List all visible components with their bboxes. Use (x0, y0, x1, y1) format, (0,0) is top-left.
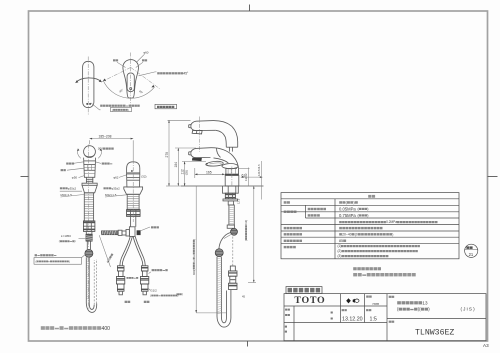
svg-text:±10): ±10) (244, 220, 248, 225)
svg-text:)(: )( (418, 307, 421, 312)
svg-text:): ) (128, 108, 129, 112)
svg-text:(: ( (112, 108, 113, 112)
svg-text:): ) (367, 207, 368, 211)
svg-text:): ) (392, 233, 393, 237)
svg-text:φ62: φ62 (113, 176, 119, 180)
svg-text:45°: 45° (184, 71, 190, 75)
svg-text:13.12.20: 13.12.20 (342, 316, 363, 322)
svg-text:21: 21 (469, 252, 474, 257)
svg-text:(: ( (36, 259, 37, 263)
svg-text:mm: mm (373, 301, 380, 306)
svg-text:φ60: φ60 (143, 50, 149, 54)
svg-text:(2): (2) (338, 249, 342, 253)
svg-text:TLNW36EZ: TLNW36EZ (415, 328, 454, 337)
svg-text:61: 61 (242, 173, 246, 177)
svg-text:0.2MPa: 0.2MPa (386, 220, 397, 224)
svg-text:(: ( (59, 239, 60, 243)
svg-text:TOTO: TOTO (294, 295, 325, 306)
svg-text:): ) (354, 201, 355, 205)
svg-text:): ) (428, 307, 430, 312)
svg-text:279: 279 (165, 152, 169, 158)
svg-text:120.5±4.5: 120.5±4.5 (257, 164, 261, 176)
svg-text:85: 85 (339, 239, 343, 243)
svg-text:G1/2: G1/2 (150, 289, 157, 293)
svg-text:φ35±2: φ35±2 (68, 186, 77, 190)
svg-text:): ) (192, 239, 196, 240)
svg-text:(JIS): (JIS) (461, 307, 476, 312)
svg-text:30°: 30° (98, 147, 103, 151)
svg-text:400: 400 (102, 326, 111, 332)
svg-text:A3: A3 (483, 343, 489, 348)
svg-text:φ50: φ50 (72, 176, 78, 180)
svg-text:0.05MPa: 0.05MPa (339, 206, 356, 211)
svg-text:0.75MPa: 0.75MPa (339, 213, 356, 218)
svg-text:45°: 45° (118, 88, 124, 94)
svg-text:): ) (75, 239, 76, 243)
svg-text:): ) (367, 214, 368, 218)
svg-text:(: ( (176, 292, 177, 296)
svg-text:(: ( (150, 293, 151, 297)
svg-text:13: 13 (422, 300, 428, 305)
svg-text:165: 165 (206, 170, 212, 174)
svg-text:(0: (0 (355, 233, 358, 237)
svg-text:(32): (32) (141, 175, 146, 179)
svg-text:12.5: 12.5 (237, 198, 241, 204)
svg-text:): ) (182, 292, 183, 296)
svg-text:45: 45 (242, 295, 245, 299)
svg-text:(3): (3) (338, 254, 342, 258)
svg-text:(35): (35) (185, 170, 189, 175)
svg-text:): ) (69, 259, 70, 263)
svg-text:20~40: 20~40 (342, 233, 352, 237)
svg-text:185~208: 185~208 (99, 134, 112, 138)
svg-text:L=1050: L=1050 (61, 234, 71, 238)
svg-text:400(: 400( (192, 270, 196, 275)
svg-text:1:5: 1:5 (370, 316, 377, 322)
svg-text:φ35±2: φ35±2 (111, 186, 120, 190)
svg-text:184: 184 (174, 162, 178, 168)
svg-text:45°: 45° (138, 89, 144, 95)
svg-text:(: ( (244, 240, 248, 241)
